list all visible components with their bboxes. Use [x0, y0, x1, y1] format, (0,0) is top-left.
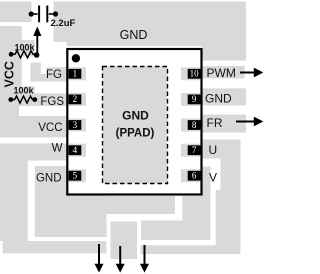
svg-text:5: 5	[73, 171, 78, 181]
pin 1 stub	[68, 67, 86, 80]
wire FG trace (staircase to pin 1)	[30, 63, 66, 82]
svg-text:4: 4	[73, 145, 78, 155]
svg-text:GND: GND	[36, 173, 62, 185]
svg-text:3: 3	[73, 120, 78, 130]
wire W output arrow	[95, 244, 104, 273]
pin 4 stub	[68, 144, 86, 157]
svg-text:PWM: PWM	[207, 66, 236, 80]
svg-text:FGS: FGS	[40, 96, 64, 108]
pin 10 box	[188, 69, 201, 79]
wire GND trace (pin 9)	[203, 88, 247, 105]
pin 7 box	[188, 145, 201, 155]
wire U output arrow	[140, 245, 149, 273]
svg-text:GND: GND	[122, 109, 149, 123]
pin 5 box	[69, 171, 82, 181]
svg-text:V: V	[209, 171, 217, 185]
svg-text:9: 9	[192, 94, 197, 104]
svg-text:100k: 100k	[14, 86, 35, 96]
thermal pad GND (PPAD)	[103, 67, 168, 184]
wire U trace (pin 7 bar + right column + bottom bar)	[141, 140, 241, 255]
pin 9 box	[188, 94, 201, 104]
svg-text:(PPAD): (PPAD)	[116, 128, 155, 140]
wire V trace (pin 6 stub + under-chip right block)	[141, 167, 210, 241]
pin 8 stub	[181, 119, 201, 132]
pin 3 box	[69, 120, 82, 130]
wire FR output arrow	[236, 117, 263, 127]
svg-text:FG: FG	[46, 69, 62, 81]
svg-text:1: 1	[73, 69, 78, 79]
IC U1 body	[67, 49, 201, 195]
pin 6 stub	[181, 169, 201, 182]
node GND top pour	[54, 2, 247, 61]
svg-text:U: U	[209, 143, 218, 157]
svg-text:VCC: VCC	[3, 61, 17, 87]
pin 8 box	[188, 120, 201, 130]
pin 10 stub	[181, 67, 201, 80]
pin 5 stub	[68, 169, 86, 182]
node VCC pour (left copper with resistor panels)	[0, 26, 66, 138]
wire arrow to capacitor	[33, 27, 41, 58]
wire output column (arrow 2 trace)	[111, 222, 138, 260]
svg-text:6: 6	[192, 171, 197, 181]
capacitor C1 2.2uF	[29, 6, 76, 30]
pin 4 box	[69, 145, 82, 155]
resistor R2 100k	[8, 86, 37, 104]
node cap pour (top-left copper)	[0, 2, 32, 23]
node GND pour (pin 5 bar + under-chip area)	[35, 166, 175, 237]
wire PWM trace	[203, 66, 245, 79]
svg-text:7: 7	[192, 145, 197, 155]
pin 9 stub	[181, 93, 201, 106]
pin 1 marker dot	[72, 54, 80, 62]
svg-text:10: 10	[190, 69, 200, 79]
svg-text:2.2uF: 2.2uF	[51, 18, 76, 29]
svg-text:FR: FR	[207, 116, 223, 130]
svg-text:100k: 100k	[15, 43, 36, 53]
wire FR trace	[203, 115, 247, 133]
svg-text:GND: GND	[205, 91, 232, 105]
svg-text:VCC: VCC	[38, 122, 62, 134]
pin 6 box	[188, 171, 201, 181]
pin 1 box	[69, 69, 82, 79]
svg-text:W: W	[52, 143, 63, 155]
svg-text:2: 2	[73, 94, 78, 104]
wire PWM output arrow	[240, 68, 263, 78]
svg-text:8: 8	[192, 120, 197, 130]
pin 3 stub	[68, 119, 86, 132]
wire W trace (pin 4 bar + left column + bottom bar)	[0, 144, 106, 254]
svg-text:GND: GND	[120, 28, 148, 42]
resistor R1 100k	[9, 43, 37, 58]
pin 2 stub	[68, 93, 86, 106]
pin 2 box	[69, 94, 82, 104]
wire output arrow 2	[116, 246, 125, 273]
pin 7 stub	[181, 144, 201, 157]
